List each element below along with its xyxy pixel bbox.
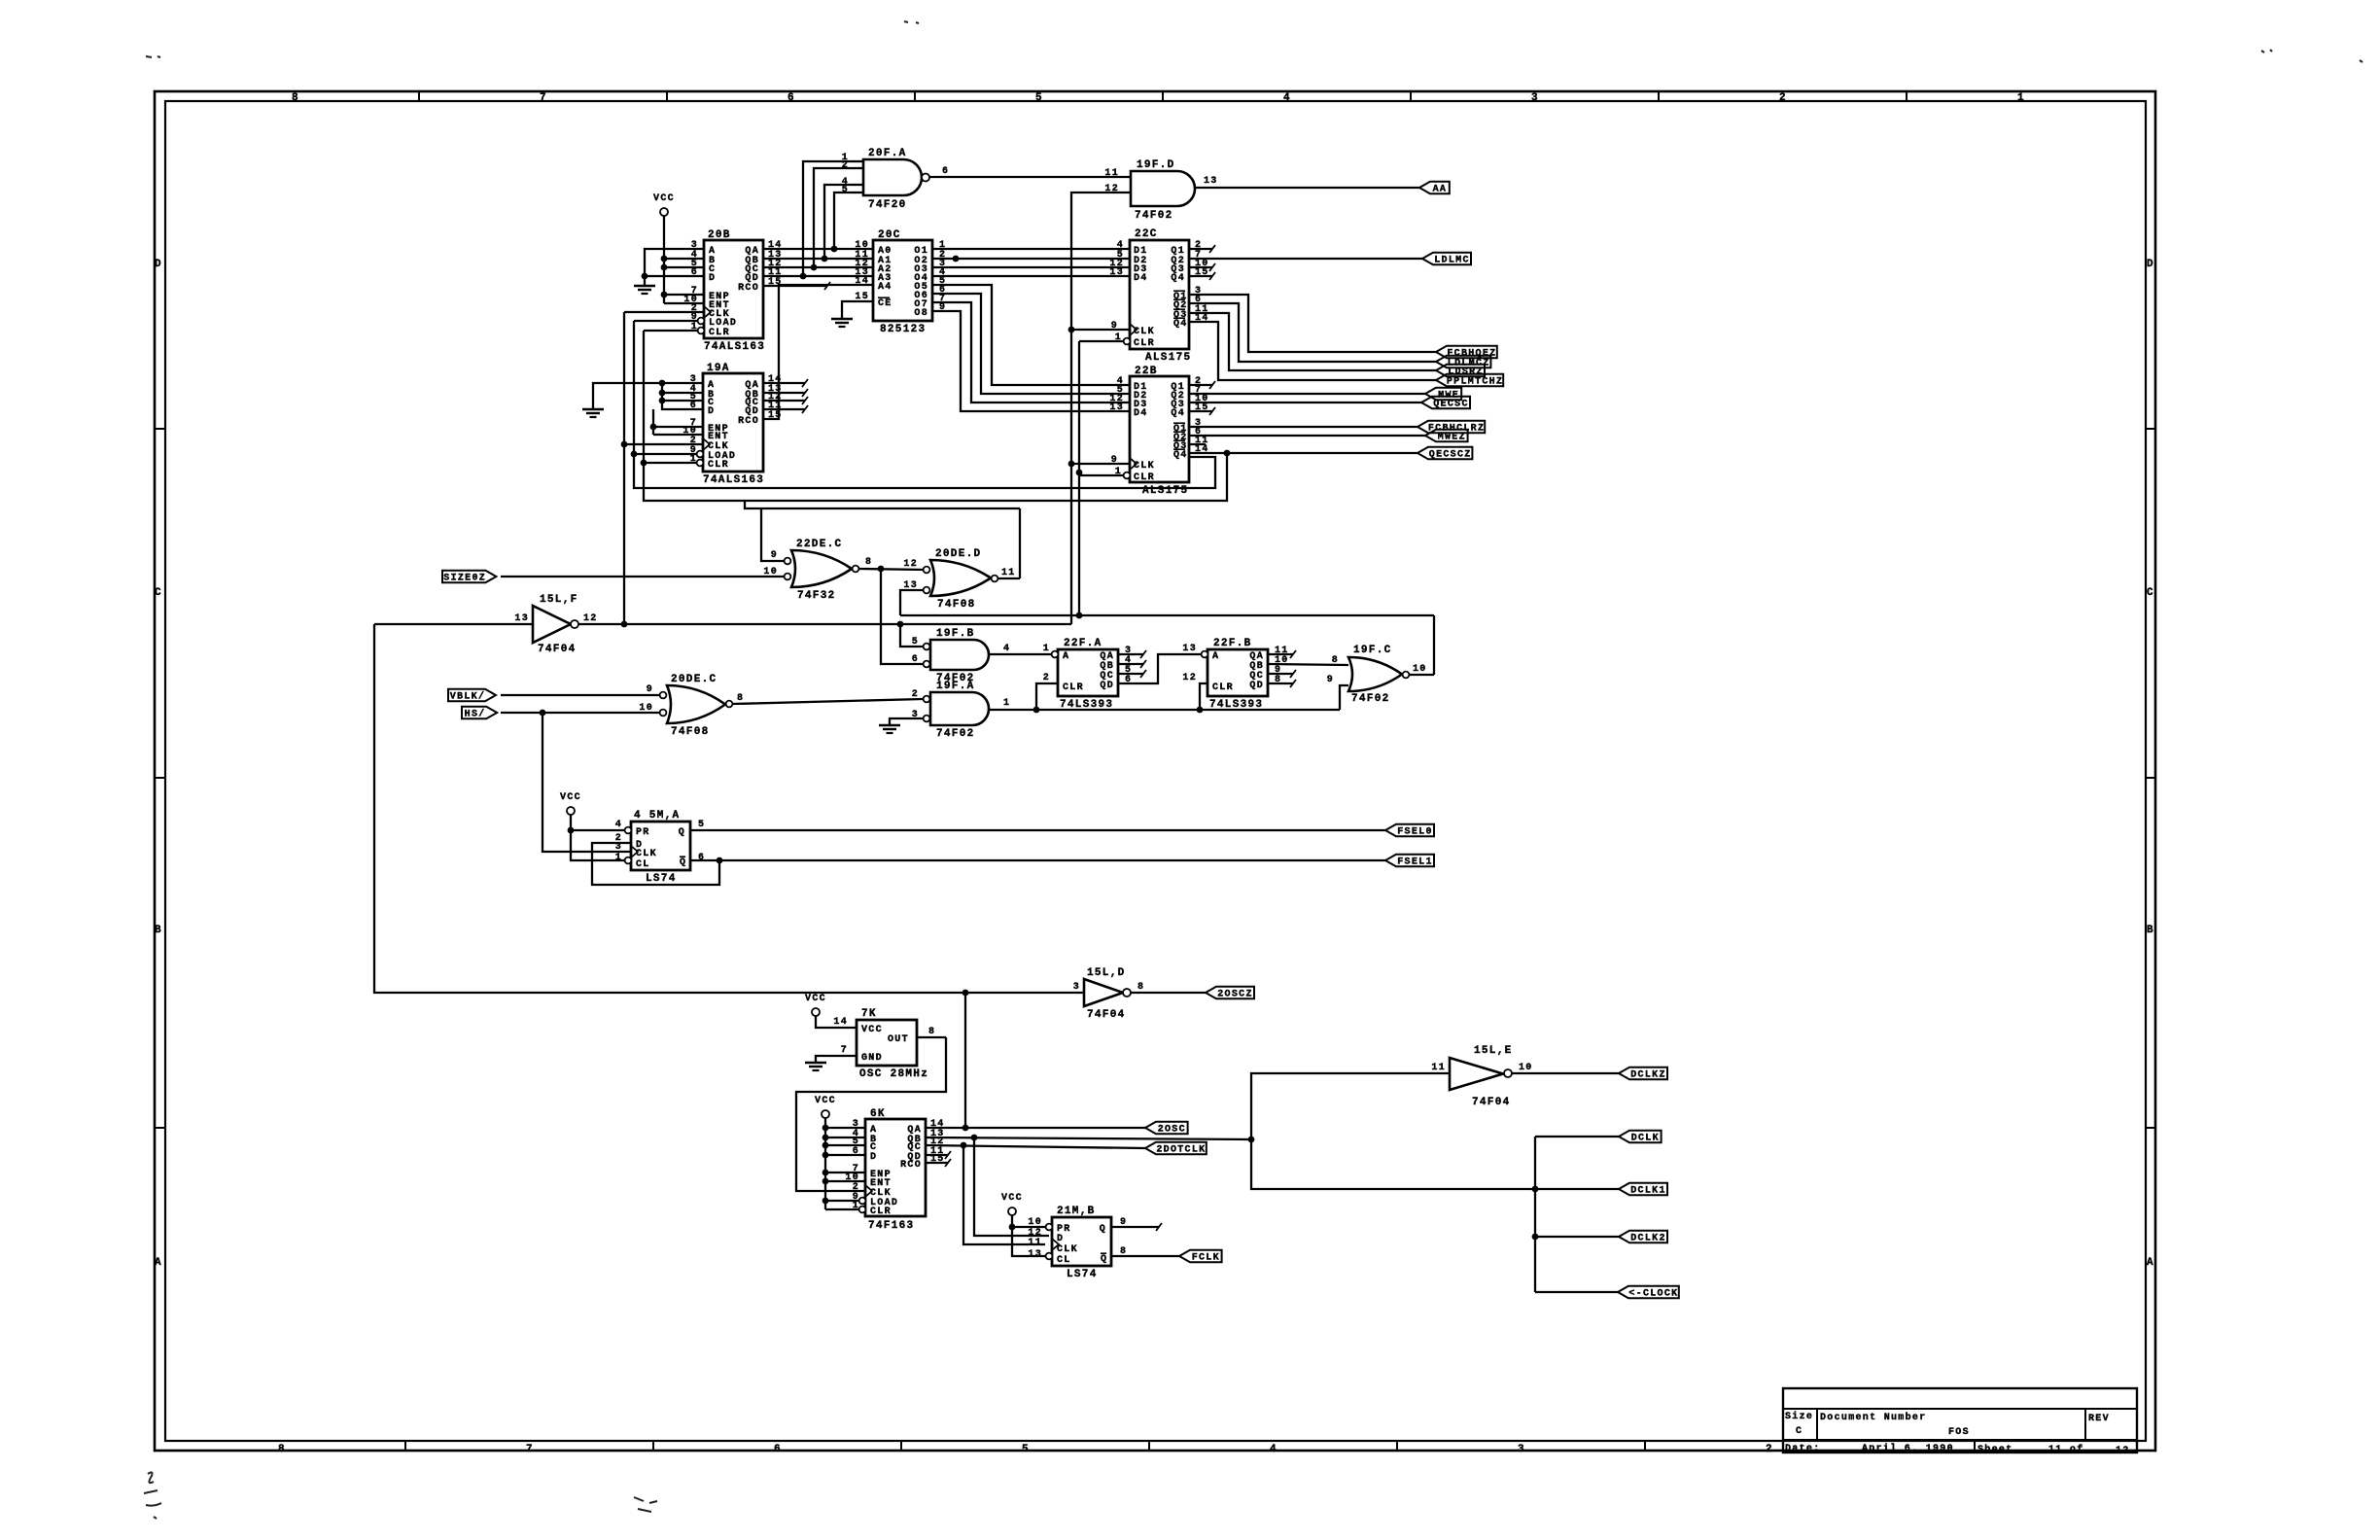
svg-text:13: 13 bbox=[1109, 402, 1124, 413]
svg-text:19F.A: 19F.A bbox=[936, 681, 975, 692]
counter 22F.B 74LS393 bbox=[1182, 638, 1288, 711]
wire 22B Q1 stub bbox=[1189, 381, 1215, 389]
wire 22B Q3 to flag QECSC bbox=[1189, 402, 1421, 403]
svg-text:4: 4 bbox=[1270, 1444, 1277, 1455]
svg-text:12: 12 bbox=[903, 559, 918, 570]
wire VBLK/ to 20DE.C pin 9 bbox=[501, 694, 659, 696]
wire 22F.B QA stub bbox=[1268, 650, 1296, 658]
svg-text:C: C bbox=[1796, 1426, 1802, 1437]
output flag QECSCZ bbox=[1417, 447, 1472, 461]
wire VCC rail to 20B pins B C ENP ENT bbox=[661, 216, 704, 303]
svg-text:8: 8 bbox=[278, 1444, 286, 1455]
svg-text:12: 12 bbox=[583, 613, 598, 624]
output flag LDLMC bbox=[1422, 253, 1471, 266]
wire 22C /Q3 to flag LDSRZ bbox=[1189, 313, 1436, 370]
svg-text:74F02: 74F02 bbox=[936, 728, 975, 740]
wire 22C CLK from clock rail bbox=[1071, 329, 1130, 331]
svg-text:D: D bbox=[870, 1152, 877, 1163]
svg-text:6: 6 bbox=[690, 401, 697, 411]
wire VCC to LS74 PR and CL bbox=[568, 815, 625, 860]
svg-text:10: 10 bbox=[1028, 1217, 1042, 1228]
wire 22B /Q4 to flag QECSCZ and feedback junction bbox=[1189, 450, 1417, 457]
counter 19A 74ALS163 bbox=[682, 363, 782, 486]
svg-text:D4: D4 bbox=[1134, 408, 1148, 419]
svg-text:2: 2 bbox=[912, 689, 919, 700]
counter 20B 74ALS163 bbox=[683, 229, 782, 353]
svg-text:LDLMC: LDLMC bbox=[1434, 256, 1470, 266]
svg-text:CL: CL bbox=[1057, 1255, 1071, 1266]
svg-text:B: B bbox=[155, 925, 162, 936]
svg-text:VCC: VCC bbox=[861, 1025, 883, 1035]
input flag VBLK/ bbox=[448, 689, 496, 703]
power symbol VCC (for 6K) bbox=[815, 1096, 836, 1118]
svg-text:15L,F: 15L,F bbox=[540, 594, 578, 606]
svg-text:DCLK1: DCLK1 bbox=[1630, 1186, 1666, 1197]
svg-text:VBLK/: VBLK/ bbox=[450, 691, 486, 703]
output flag AA bbox=[1419, 182, 1450, 195]
wire LS74 Q to flag FSEL0 bbox=[690, 829, 1385, 831]
svg-text:CLR: CLR bbox=[1134, 338, 1155, 349]
nor gate 19F.C 74F02 bbox=[1327, 645, 1427, 705]
wire 22F.B QB to 19F.C pin 8 bbox=[1268, 664, 1348, 665]
svg-text:20C: 20C bbox=[878, 229, 901, 241]
svg-text:1: 1 bbox=[1003, 698, 1010, 709]
wire 19F.A pin 3 to ground bbox=[890, 718, 923, 724]
wire bus 20B QA-QD to PROM 20C A0-A3 bbox=[763, 249, 873, 276]
wire QB net up to 15L.E input bbox=[1251, 1073, 1450, 1139]
svg-text:A: A bbox=[155, 1257, 162, 1269]
svg-text:CLR: CLR bbox=[1212, 682, 1234, 693]
svg-text:Q4: Q4 bbox=[1173, 450, 1188, 461]
wire OSC output to 6K CLK bbox=[796, 1027, 946, 1191]
wire clear rail (to 20B/19A CLR) bbox=[641, 331, 1227, 501]
wire 22F.A QA-QC stubs bbox=[1118, 650, 1146, 678]
svg-text:11: 11 bbox=[1001, 568, 1016, 578]
ground (20C CE) bbox=[831, 319, 853, 327]
svg-text:74F20: 74F20 bbox=[868, 199, 907, 211]
svg-text:VCC: VCC bbox=[1001, 1193, 1023, 1204]
input flag HS/ bbox=[462, 707, 497, 720]
output flag FCBHCLRZ bbox=[1417, 421, 1485, 435]
svg-text:20DE.C: 20DE.C bbox=[671, 674, 717, 685]
ground (19A input rail) bbox=[582, 409, 604, 417]
wire LS74 D feedback from /Q bbox=[592, 843, 722, 885]
svg-text:Q4: Q4 bbox=[1171, 273, 1185, 284]
wire 19A ENP ENT tie rail bbox=[650, 409, 703, 435]
wire 22C Q3 stub bbox=[1189, 263, 1215, 271]
wire 22C Q4 stub bbox=[1189, 272, 1215, 280]
wire 22C /Q2 to flag LDLMCZ bbox=[1189, 303, 1436, 362]
svg-text:QD: QD bbox=[1100, 681, 1114, 691]
svg-text:CLR: CLR bbox=[709, 328, 730, 338]
svg-text:2OSCZ: 2OSCZ bbox=[1217, 990, 1253, 1000]
svg-text:6: 6 bbox=[787, 92, 795, 104]
svg-text:10: 10 bbox=[1413, 664, 1427, 675]
wire 22B Q4 stub bbox=[1189, 407, 1215, 415]
wire left rail from y647 down to 2OSC net bbox=[374, 624, 965, 993]
wire 19F.C output up to y633 net bbox=[1410, 674, 1434, 676]
wire 20F.A pin4 input from QB row bbox=[822, 185, 852, 262]
output flag FCLK bbox=[1179, 1250, 1222, 1264]
svg-text:VCC: VCC bbox=[815, 1096, 836, 1106]
svg-text:74F163: 74F163 bbox=[868, 1220, 914, 1232]
wire 22B /Q1 to flag FCBHCLRZ bbox=[1189, 426, 1417, 428]
svg-text:5: 5 bbox=[1035, 92, 1043, 104]
svg-text:A: A bbox=[2147, 1257, 2154, 1269]
wire bus 20C O1-O4 to 22C D1-D4 bbox=[932, 249, 1130, 276]
svg-text:12: 12 bbox=[2116, 1446, 2130, 1456]
wire 20DE.D output up to net y523 bbox=[998, 577, 1020, 579]
svg-text:2: 2 bbox=[1766, 1444, 1773, 1455]
svg-text:74LS393: 74LS393 bbox=[1209, 699, 1263, 711]
wire drop to 19F.B pin 5 bbox=[900, 624, 923, 647]
svg-text:13: 13 bbox=[1204, 176, 1218, 187]
svg-text:74F32: 74F32 bbox=[797, 590, 836, 602]
svg-text:19F.B: 19F.B bbox=[936, 628, 975, 640]
wire OSC GND pin 7 to ground bbox=[816, 1045, 857, 1062]
wire 22F.B QD stub bbox=[1268, 680, 1296, 687]
svg-text:12: 12 bbox=[1182, 673, 1197, 683]
PROM 20C 82S123 bbox=[855, 229, 946, 335]
wire 15L.E output to flag DCLKZ bbox=[1512, 1072, 1619, 1074]
svg-text:QECSC: QECSC bbox=[1433, 400, 1469, 410]
wire 20C CE to ground bbox=[842, 301, 873, 318]
output flag 2OSCZ bbox=[1206, 987, 1254, 1000]
svg-text:6: 6 bbox=[912, 654, 919, 665]
svg-text:3: 3 bbox=[1531, 92, 1539, 104]
svg-text:22F.B: 22F.B bbox=[1213, 638, 1252, 649]
svg-text:74F02: 74F02 bbox=[1135, 210, 1173, 222]
output flag 2OSC bbox=[1145, 1122, 1188, 1136]
svg-text:74F08: 74F08 bbox=[937, 599, 976, 611]
svg-text:74F04: 74F04 bbox=[1472, 1097, 1511, 1108]
svg-text:CLR: CLR bbox=[870, 1207, 892, 1217]
svg-text:6: 6 bbox=[774, 1444, 782, 1455]
svg-text:D: D bbox=[709, 273, 716, 284]
output flag FCBHQEZ bbox=[1436, 346, 1497, 360]
svg-text:1: 1 bbox=[615, 853, 622, 863]
wire 19A QA-QD stubs bbox=[763, 379, 808, 413]
svg-text:1: 1 bbox=[2017, 92, 2025, 104]
svg-text:DCLK: DCLK bbox=[1631, 1134, 1660, 1144]
svg-text:19F.D: 19F.D bbox=[1137, 159, 1175, 171]
wire 20B pin A and D to ground rail bbox=[642, 249, 704, 285]
wire 20F.A output to 19F.D pin 11 bbox=[929, 176, 1131, 178]
svg-text:Q: Q bbox=[1101, 1254, 1107, 1265]
svg-text:CL: CL bbox=[636, 859, 650, 870]
svg-text:FCLK: FCLK bbox=[1192, 1253, 1220, 1264]
quad flip-flop 22B ALS175 bbox=[1109, 366, 1208, 497]
input flag SIZE0Z bbox=[442, 571, 496, 584]
wire 15L.F input from left rail bbox=[374, 623, 533, 625]
wire 6K QD stub bbox=[926, 1151, 951, 1159]
wire 19A RCO up to 20C A4 bbox=[763, 285, 873, 419]
svg-text:CLK: CLK bbox=[636, 849, 657, 859]
svg-text:RCO: RCO bbox=[900, 1160, 922, 1171]
svg-text:8: 8 bbox=[865, 557, 872, 568]
wire load rail (22B /Q4 feedback to 20B/19A LOAD) bbox=[631, 321, 1215, 488]
output flag DCLKZ bbox=[1619, 1067, 1667, 1081]
svg-text:74F02: 74F02 bbox=[1351, 693, 1390, 705]
wire clock rail (15L.F out to 20B/19A CLK) bbox=[621, 312, 703, 624]
svg-text:PR: PR bbox=[636, 827, 650, 838]
wire clear rail of ALS175s bbox=[1076, 341, 1083, 618]
svg-text:Q: Q bbox=[680, 857, 686, 868]
svg-text:CLR: CLR bbox=[1134, 472, 1155, 483]
inverter 15L.F 74F04 bbox=[514, 594, 597, 655]
svg-text:4: 4 bbox=[615, 820, 622, 830]
svg-text:6: 6 bbox=[691, 267, 698, 278]
svg-text:8: 8 bbox=[1137, 982, 1144, 993]
svg-text:20F.A: 20F.A bbox=[868, 148, 907, 159]
output flag CLOCK bbox=[1618, 1286, 1679, 1300]
svg-text:RCO: RCO bbox=[738, 416, 759, 427]
svg-text:B: B bbox=[2147, 925, 2154, 936]
svg-text:CLK: CLK bbox=[1057, 1244, 1078, 1255]
svg-text:REV: REV bbox=[2088, 1414, 2110, 1424]
power symbol VCC (for OSC 7K) bbox=[805, 994, 826, 1016]
svg-text:FOS: FOS bbox=[1948, 1427, 1970, 1438]
svg-text:22C: 22C bbox=[1135, 228, 1158, 240]
wire 2OSC net to 15L.D input bbox=[962, 990, 1084, 1128]
flip-flop 4-5M.A LS74 bbox=[615, 810, 706, 885]
wire 19A pins B C D tie rail bbox=[659, 380, 703, 409]
wire 6K QA to flag 2OSC bbox=[926, 1125, 1145, 1132]
svg-text:FSEL1: FSEL1 bbox=[1397, 857, 1433, 868]
svg-text:7: 7 bbox=[841, 1045, 848, 1056]
power symbol VCC (for LS74 4-5M.A) bbox=[560, 792, 581, 815]
wire 21M.B /Q to flag FCLK bbox=[1111, 1255, 1179, 1257]
svg-text:4 5M,A: 4 5M,A bbox=[634, 810, 680, 822]
svg-text:11: 11 bbox=[1431, 1063, 1446, 1073]
svg-text:13: 13 bbox=[1028, 1249, 1042, 1260]
wire 22B Q2 to flag MWE bbox=[1189, 393, 1425, 395]
inverter 15L.D 74F04 bbox=[1073, 967, 1145, 1021]
svg-text:OSC 28MHz: OSC 28MHz bbox=[859, 1068, 928, 1080]
svg-text:DCLK2: DCLK2 bbox=[1630, 1234, 1666, 1244]
svg-text:74ALS163: 74ALS163 bbox=[703, 474, 764, 486]
svg-text:4: 4 bbox=[1003, 644, 1010, 654]
ground (19F.A pin 3) bbox=[879, 725, 900, 733]
wire 22C /Q4 to flag PPLMTCHZ bbox=[1189, 322, 1436, 380]
svg-text:RCO: RCO bbox=[738, 283, 759, 294]
output flag QECSC bbox=[1421, 397, 1470, 410]
svg-text:15L,D: 15L,D bbox=[1087, 967, 1126, 979]
output flag FSEL0 bbox=[1385, 824, 1434, 838]
svg-text:6: 6 bbox=[698, 853, 705, 863]
svg-text:LS74: LS74 bbox=[1067, 1269, 1098, 1280]
quad flip-flop 22C ALS175 bbox=[1109, 228, 1208, 364]
wire 22DE.C output to 20DE.D pin 12 bbox=[859, 566, 926, 573]
svg-text:PPLMTCHZ: PPLMTCHZ bbox=[1447, 377, 1503, 388]
svg-text:1: 1 bbox=[853, 1201, 859, 1211]
wire 6K RCO stub bbox=[926, 1159, 951, 1167]
wire 6K QC to flag 2DOTCLK and 21M.B CLK bbox=[926, 1142, 1145, 1244]
svg-text:15L,E: 15L,E bbox=[1474, 1045, 1513, 1057]
nor gate 19F.A 74F02 bbox=[912, 681, 1011, 740]
svg-text:13: 13 bbox=[1109, 267, 1124, 278]
svg-text:VCC: VCC bbox=[560, 792, 581, 803]
svg-text:Q4: Q4 bbox=[1173, 319, 1188, 330]
wire 19F.D output to flag AA bbox=[1195, 187, 1419, 189]
wire 20DE.D pin 13 to clear net (19F.C out) bbox=[900, 590, 924, 615]
output flag PPLMTCHZ bbox=[1436, 374, 1503, 388]
output flag FSEL1 bbox=[1385, 855, 1434, 868]
svg-text:QECSCZ: QECSCZ bbox=[1429, 450, 1472, 461]
svg-text:8: 8 bbox=[1332, 655, 1339, 666]
svg-text:CLK: CLK bbox=[1134, 327, 1155, 337]
svg-text:10: 10 bbox=[763, 567, 778, 577]
svg-text:20DE.D: 20DE.D bbox=[935, 548, 981, 560]
svg-text:C: C bbox=[155, 587, 162, 599]
svg-text:<-CLOCK: <-CLOCK bbox=[1628, 1289, 1678, 1300]
svg-text:11: 11 bbox=[1028, 1238, 1042, 1248]
svg-text:6K: 6K bbox=[870, 1108, 886, 1120]
svg-text:9: 9 bbox=[771, 550, 778, 561]
svg-text:9: 9 bbox=[1327, 675, 1334, 685]
counter 22F.A 74LS393 bbox=[1043, 638, 1133, 711]
output flag 2DOTCLK bbox=[1145, 1142, 1207, 1156]
wire 6K QB to DCLK tree and 21M.B D bbox=[926, 1135, 1254, 1236]
wire VCC rail to 6K inputs bbox=[822, 1118, 865, 1209]
output flag DCLK1 bbox=[1619, 1183, 1667, 1197]
nor gate 19F.D 74F02 bbox=[1104, 159, 1217, 222]
svg-text:8: 8 bbox=[928, 1027, 935, 1037]
svg-text:3: 3 bbox=[1518, 1444, 1525, 1455]
wire 20B CLR to rail bbox=[644, 330, 698, 332]
svg-text:5: 5 bbox=[698, 820, 705, 830]
svg-text:Q4: Q4 bbox=[1171, 408, 1185, 419]
wire 20B RCO stub bbox=[763, 282, 830, 290]
svg-text:7K: 7K bbox=[861, 1008, 877, 1020]
svg-text:April 6, 1990: April 6, 1990 bbox=[1862, 1443, 1954, 1454]
svg-text:74ALS163: 74ALS163 bbox=[704, 341, 765, 353]
svg-text:OUT: OUT bbox=[888, 1034, 909, 1045]
border reference grid: zone numbers and letters bbox=[155, 91, 2155, 1455]
wire 22F.A QD to 22F.B A bbox=[1118, 654, 1201, 683]
svg-text:19F.C: 19F.C bbox=[1353, 645, 1392, 656]
svg-text:2OSC: 2OSC bbox=[1158, 1125, 1186, 1136]
svg-text:14: 14 bbox=[833, 1017, 848, 1028]
wire 20B CLK to rail bbox=[624, 311, 704, 313]
wire 22B /Q2 to flag MWEZ bbox=[1189, 435, 1425, 437]
wire DCLK distribution tree bbox=[1532, 1137, 1619, 1292]
svg-text:5: 5 bbox=[912, 637, 919, 647]
svg-text:8: 8 bbox=[292, 92, 299, 104]
inverter 15L.E 74F04 bbox=[1431, 1045, 1532, 1108]
wire 21M.B Q stub bbox=[1111, 1223, 1162, 1231]
svg-text:D4: D4 bbox=[1134, 273, 1148, 284]
svg-text:13: 13 bbox=[514, 613, 529, 624]
wire 22C Q2 to flag LDLMC bbox=[1189, 258, 1422, 260]
svg-text:SIZE0Z: SIZE0Z bbox=[443, 574, 486, 584]
svg-text:CLR: CLR bbox=[1063, 682, 1084, 693]
svg-text:VCC: VCC bbox=[805, 994, 826, 1004]
wire 22DE.C pin 9 from net 20DE.D output bbox=[761, 508, 784, 561]
power symbol VCC (for 21M.B) bbox=[1001, 1193, 1023, 1215]
wire 22F.B QC stub bbox=[1268, 670, 1296, 678]
svg-text:11: 11 bbox=[1104, 168, 1119, 179]
svg-text:11 of: 11 of bbox=[2048, 1444, 2084, 1455]
svg-text:20B: 20B bbox=[708, 229, 731, 241]
counter 6K 74F163 bbox=[845, 1108, 944, 1232]
svg-text:2: 2 bbox=[1043, 673, 1050, 683]
wire 22C CLR from clear rail bbox=[1079, 340, 1124, 342]
wire staircase 20C O5-O8 to 22B D1-D4 bbox=[932, 285, 1130, 411]
svg-text:74LS393: 74LS393 bbox=[1060, 699, 1113, 711]
svg-text:6: 6 bbox=[853, 1146, 859, 1157]
wire VCC to OSC pin 14 bbox=[816, 1016, 857, 1028]
output flag MWEZ bbox=[1425, 430, 1468, 443]
wire 19F.A output to 393 CLRs and 19F.C pin 9 bbox=[989, 683, 1348, 713]
svg-text:2DOTCLK: 2DOTCLK bbox=[1156, 1145, 1206, 1156]
svg-text:CLK: CLK bbox=[1134, 461, 1155, 472]
svg-text:74F04: 74F04 bbox=[538, 644, 577, 655]
svg-text:7: 7 bbox=[526, 1444, 534, 1455]
or gate 22DE.C 74F32 bbox=[763, 539, 872, 602]
svg-text:HS/: HS/ bbox=[465, 709, 486, 720]
svg-text:LS74: LS74 bbox=[646, 873, 677, 885]
svg-text:QD: QD bbox=[1249, 681, 1264, 691]
svg-text:AA: AA bbox=[1433, 185, 1448, 195]
svg-text:D: D bbox=[155, 259, 162, 270]
output flag LDSRZ bbox=[1436, 365, 1485, 378]
svg-text:22DE.C: 22DE.C bbox=[796, 539, 842, 550]
title block bbox=[1783, 1388, 2137, 1456]
wire 20F.A pin5 input from QA row bbox=[831, 192, 852, 252]
wire 22B /Q3 stub bbox=[1189, 443, 1206, 445]
svg-text:2: 2 bbox=[1779, 92, 1787, 104]
wire 22C Q1 stub bbox=[1189, 245, 1215, 253]
and gate 20DE.D 74F08 bbox=[903, 548, 1015, 611]
wire net y523 (20DE.D out / 22DE.C.9) bbox=[745, 501, 1020, 578]
output flag LDLMCZ bbox=[1436, 356, 1490, 369]
svg-text:1: 1 bbox=[1043, 644, 1050, 654]
svg-text:MWEZ: MWEZ bbox=[1438, 433, 1466, 443]
svg-text:Size: Size bbox=[1785, 1411, 1813, 1422]
svg-text:VCC: VCC bbox=[653, 193, 675, 204]
svg-text:4: 4 bbox=[1283, 92, 1291, 104]
ground (OSC 7K) bbox=[805, 1063, 826, 1070]
svg-text:5: 5 bbox=[1022, 1444, 1030, 1455]
svg-text:74F04: 74F04 bbox=[1087, 1009, 1126, 1021]
svg-text:8: 8 bbox=[737, 693, 744, 704]
svg-text:C: C bbox=[2147, 587, 2154, 599]
svg-text:CE: CE bbox=[878, 298, 892, 309]
wire 19F.D pin12 down rail (clock net of ALS175s) bbox=[1068, 192, 1131, 624]
svg-text:A: A bbox=[1063, 651, 1069, 662]
svg-text:22B: 22B bbox=[1135, 366, 1158, 377]
svg-text:Sheet: Sheet bbox=[1977, 1444, 2013, 1455]
power symbol VCC (for 20B inputs) bbox=[653, 193, 675, 216]
wire QB net down to DCLK1 line bbox=[1251, 1139, 1535, 1189]
svg-text:825123: 825123 bbox=[880, 324, 926, 335]
svg-text:22F.A: 22F.A bbox=[1064, 638, 1102, 649]
svg-text:ALS175: ALS175 bbox=[1142, 485, 1188, 497]
wire VCC to 21M.B PR and CL bbox=[1009, 1215, 1046, 1256]
svg-text:7: 7 bbox=[540, 92, 547, 104]
svg-text:CLR: CLR bbox=[708, 460, 729, 471]
wire 20F.A pin1 input from QD row bbox=[800, 161, 852, 279]
svg-text:FSEL0: FSEL0 bbox=[1397, 827, 1433, 838]
wire net 19F.C output (y633) bbox=[900, 615, 1434, 675]
wire 15L.D output to flag 2OSCZ bbox=[1131, 992, 1206, 994]
svg-text:DCLKZ: DCLKZ bbox=[1630, 1070, 1666, 1081]
svg-text:9: 9 bbox=[647, 684, 653, 695]
wire SIZE0Z to 22DE.C pin 10 bbox=[501, 576, 784, 577]
svg-text:ALS175: ALS175 bbox=[1145, 352, 1191, 364]
wire 20B LOAD to rail bbox=[634, 320, 698, 322]
